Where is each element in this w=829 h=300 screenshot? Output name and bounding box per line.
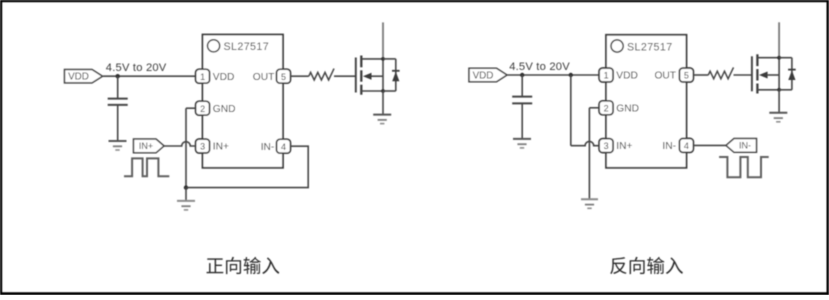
resistor R1 (gate resistor, left)	[309, 69, 334, 80]
wire junction to ground symbol (left)	[185, 188, 187, 201]
transistor Q2 N-MOSFET with body diode (right)	[752, 22, 796, 122]
power tag VDD (left circuit)	[65, 70, 103, 83]
input square-wave symbol (right, inverted)	[719, 157, 769, 177]
svg-text:2: 2	[200, 104, 205, 114]
U2 pin-1 indicator circle	[611, 40, 623, 52]
node: VDD/capacitor junction (left)	[116, 74, 120, 78]
U2 pin 5 label OUT	[654, 71, 676, 82]
U2 pin 4 label IN-	[662, 141, 676, 152]
q source stem	[778, 90, 780, 113]
supply voltage label 4.5V to 20V (right)	[509, 61, 570, 73]
wire VDD tag to pin 1 (left)	[103, 75, 196, 77]
supply voltage label 4.5V to 20V (left)	[106, 62, 167, 74]
svg-text:IN-: IN-	[662, 141, 676, 152]
wire resistor to MOSFET gate (left)	[334, 75, 356, 77]
transistor Q1 N-MOSFET with body diode (left)	[356, 22, 400, 123]
U1 pin 2 (GND)	[196, 101, 210, 115]
capacitor C1 (left bypass cap)	[108, 99, 128, 105]
q body diode	[383, 58, 396, 60]
svg-text:3: 3	[604, 141, 609, 151]
q source connection	[757, 89, 779, 91]
svg-text:4: 4	[281, 142, 286, 152]
U2 pin 1 label VDD	[616, 71, 638, 82]
svg-text:2: 2	[604, 103, 609, 113]
q junction dots	[777, 56, 781, 60]
svg-text:SL27517: SL27517	[224, 41, 270, 53]
svg-text:GND: GND	[616, 103, 639, 114]
svg-text:SL27517: SL27517	[627, 41, 673, 53]
node: GND junction (left)	[184, 185, 188, 189]
svg-text:GND: GND	[213, 104, 236, 115]
q drain stub up	[778, 22, 780, 57]
svg-text:IN+: IN+	[213, 142, 229, 153]
resistor R2 (gate resistor, right)	[708, 67, 733, 78]
wire junction down to capacitor C2	[521, 75, 523, 97]
U2 pin 2 label GND	[616, 103, 639, 114]
svg-text:OUT: OUT	[253, 72, 275, 83]
wire junction down to capacitor C1	[117, 76, 119, 98]
node: VDD/IN+ tie junction (right)	[569, 73, 573, 77]
caption 反向输入 (inverted input)	[610, 257, 683, 274]
q drain connection	[361, 58, 383, 60]
q gate bar	[355, 58, 357, 93]
svg-text:VDD: VDD	[473, 71, 494, 82]
U1 pin 1 (VDD)	[196, 69, 210, 83]
wire VDD tie down to pin 3 with hop (right)	[571, 75, 600, 146]
ground (signal ground, left)	[177, 201, 195, 210]
U1 pin 3 (IN+)	[196, 139, 210, 153]
ground (signal ground, right)	[581, 199, 598, 208]
input square-wave symbol (left, non-inverted)	[124, 158, 169, 176]
wire capacitor C1 to ground	[117, 105, 119, 140]
U2 pin 4 (IN-)	[679, 138, 693, 152]
svg-text:4.5V to 20V: 4.5V to 20V	[509, 61, 570, 73]
svg-text:3: 3	[200, 142, 205, 152]
capacitor C2 (right bypass cap)	[512, 97, 532, 104]
U1 pin 4 (IN-)	[277, 139, 291, 153]
wire resistor to MOSFET gate (right)	[734, 74, 752, 76]
svg-text:VDD: VDD	[616, 71, 638, 82]
wire pin 4 IN- to input tag (right)	[693, 144, 726, 146]
wire pin 5 OUT to gate resistor (left)	[291, 75, 309, 77]
U2 pin 2 (GND)	[599, 101, 613, 115]
q drain stub up	[382, 22, 384, 59]
wire capacitor C2 to ground	[521, 103, 523, 138]
wire pin2 GND left (right circuit)	[589, 107, 599, 109]
wire VDD tag to pin 1 (right)	[508, 74, 600, 76]
input tag IN+ (left circuit)	[134, 139, 165, 153]
wire GND vertical down (right circuit)	[588, 108, 590, 199]
svg-text:1: 1	[200, 72, 205, 82]
q drain connection	[757, 57, 779, 59]
svg-text:4: 4	[684, 141, 689, 151]
node: VDD/capacitor junction (right)	[520, 73, 524, 77]
svg-text:1: 1	[604, 71, 609, 81]
U1 pin 5 label OUT	[253, 72, 275, 83]
q body diode	[779, 57, 792, 59]
U1 pin 5 (OUT)	[277, 69, 291, 83]
q junction dots	[381, 57, 385, 61]
U1 pin 4 label IN-	[261, 142, 275, 153]
svg-text:IN-: IN-	[739, 141, 751, 151]
q body arrow	[372, 75, 384, 77]
op-amp driver IC U1 SL27517 body (left)	[203, 35, 284, 168]
q channel segments	[756, 54, 758, 66]
wire GND vertical down (left circuit)	[185, 108, 187, 187]
svg-text:4.5V to 20V: 4.5V to 20V	[106, 62, 167, 74]
U2 pin 3 label IN+	[616, 141, 632, 152]
U1 pin 3 label IN+	[213, 142, 229, 153]
U1 pin 2 label GND	[213, 104, 236, 115]
U2 pin 1 (VDD)	[599, 68, 613, 82]
U2 pin 5 (OUT)	[679, 68, 693, 82]
svg-text:5: 5	[281, 72, 286, 82]
svg-text:5: 5	[684, 71, 689, 81]
q body arrow	[768, 74, 780, 76]
svg-text:VDD: VDD	[68, 72, 89, 83]
q channel segments	[360, 56, 362, 68]
svg-text:OUT: OUT	[654, 71, 676, 82]
U1 pin 1 label VDD	[213, 72, 235, 83]
U1 pin-1 indicator circle	[208, 40, 220, 52]
q gate bar	[751, 56, 753, 91]
power tag VDD (right circuit)	[469, 68, 507, 81]
svg-text:IN+: IN+	[139, 141, 153, 151]
U1 part number SL27517	[224, 41, 270, 53]
q body rail	[778, 58, 780, 90]
svg-text:IN+: IN+	[616, 141, 632, 152]
input tag IN- (right circuit)	[726, 139, 757, 153]
ground (mosfet source)	[769, 112, 787, 114]
q source connection	[361, 90, 383, 92]
q body rail	[382, 59, 384, 91]
wire pin 4 IN- loop to ground (left)	[187, 146, 308, 187]
q source stem	[382, 91, 384, 115]
svg-text:IN-: IN-	[261, 142, 275, 153]
svg-text:VDD: VDD	[213, 72, 235, 83]
op-amp driver IC U2 SL27517 body (right)	[606, 35, 687, 168]
wire pin 5 OUT to gate resistor (right)	[693, 74, 708, 76]
wire IN+ tag to pin 3 with hop over GND wire	[164, 142, 196, 146]
ground (below C1)	[109, 141, 127, 150]
U2 pin 3 (IN+)	[599, 139, 613, 153]
U2 part number SL27517	[627, 41, 673, 53]
ground (mosfet source)	[373, 114, 391, 116]
caption 正向输入 (forward input)	[207, 257, 280, 274]
ground (below C2)	[513, 139, 531, 148]
wire pin2 GND left (left circuit)	[186, 107, 196, 109]
